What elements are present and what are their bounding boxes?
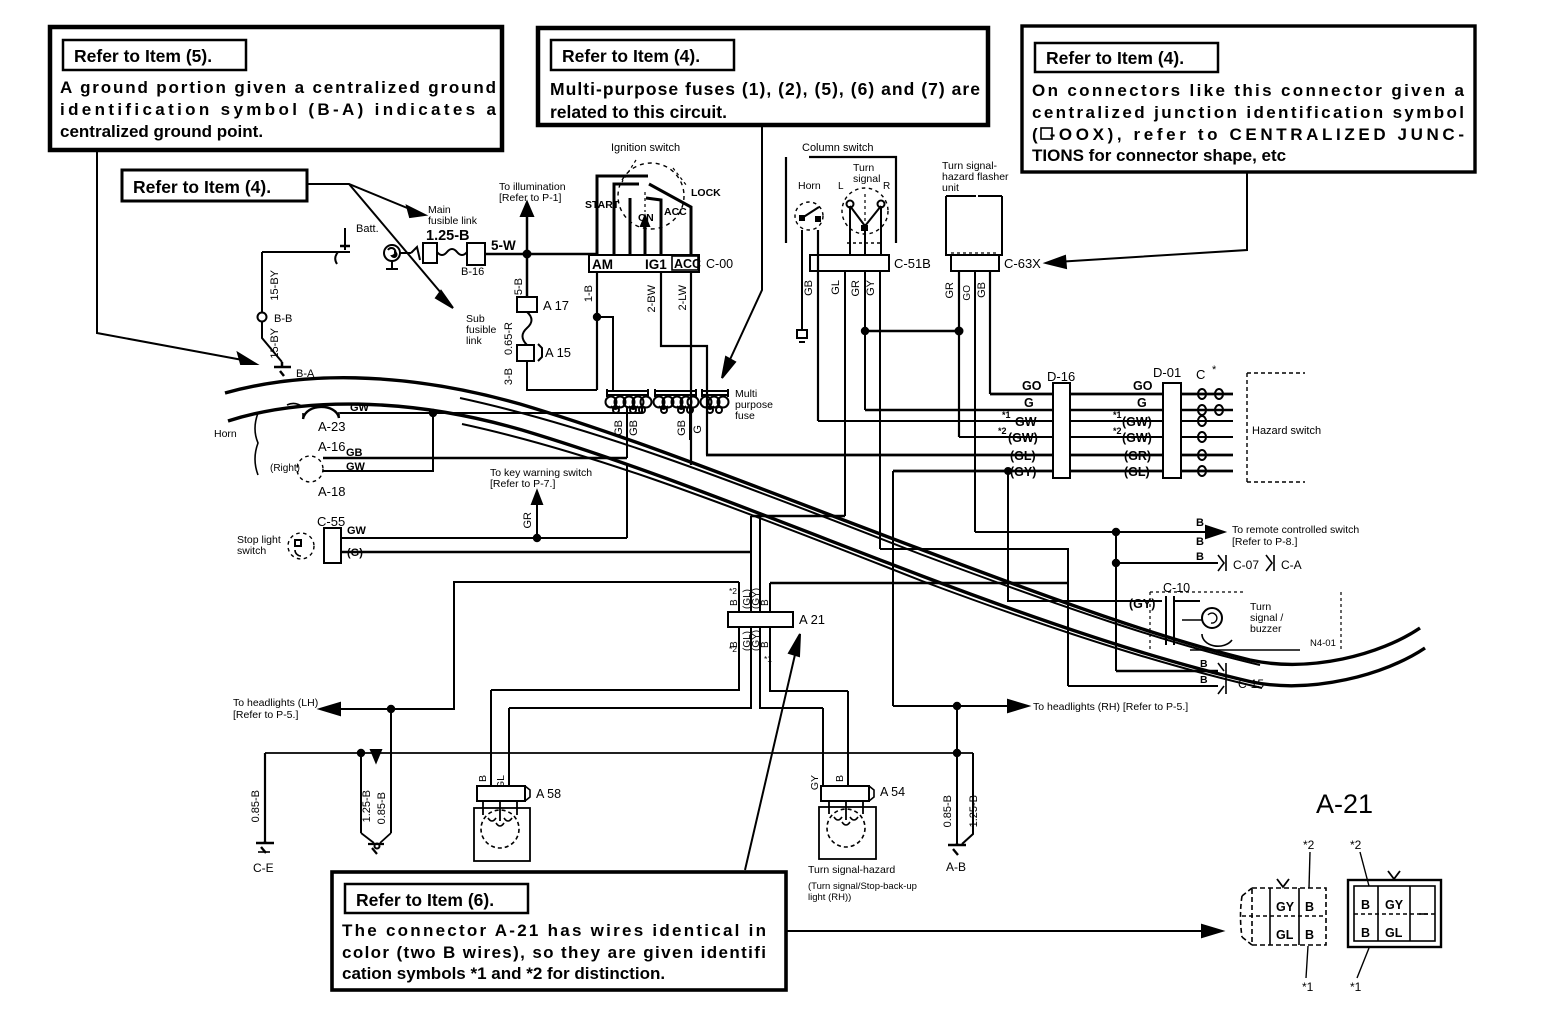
multi-purpose fuse bar 1 — [607, 389, 648, 397]
note box item5 top-left — [50, 27, 502, 150]
multi-purpose fuse bar 2 — [655, 389, 696, 397]
connector A-21 — [728, 612, 825, 627]
svg-text:A-21: A-21 — [1316, 789, 1373, 819]
svg-text:*2: *2 — [729, 586, 737, 596]
svg-text:signal: signal — [853, 173, 880, 185]
wire GL ladder y455 — [706, 454, 1233, 457]
svg-text:B: B — [1361, 898, 1370, 912]
svg-text:*2: *2 — [1303, 838, 1315, 852]
svg-text:R: R — [883, 181, 890, 192]
wire B to C-07 C-A — [1113, 532, 1302, 671]
svg-text:GY: GY — [1276, 900, 1295, 914]
ground C-E left — [250, 753, 274, 875]
svg-text:color (two B wires), so they a: color (two B wires), so they are given i… — [342, 943, 766, 962]
svg-text:B: B — [1196, 551, 1204, 563]
leader arrow from item6 box to A-21 connector — [745, 634, 800, 870]
svg-text:To remote controlled switch: To remote controlled switch — [1232, 524, 1359, 536]
svg-text:*1: *1 — [1002, 410, 1011, 420]
wire GY drop to C-10 — [1005, 468, 1162, 611]
svg-text:Hazard switch: Hazard switch — [1252, 425, 1321, 437]
svg-text:C-07: C-07 — [1233, 558, 1259, 572]
svg-text:GL: GL — [1385, 926, 1403, 940]
leader arrow from item6 box to A-21 pinout detail — [786, 925, 1222, 937]
wire 5-B down to A-17 — [513, 254, 527, 297]
wire GO ladder y394 — [990, 393, 1233, 396]
svg-text:switch: switch — [237, 545, 266, 557]
fuse stub G — [692, 425, 704, 434]
svg-text:15-BY: 15-BY — [269, 327, 281, 358]
wire G ladder y410 — [865, 409, 1233, 412]
svg-text:A 21: A 21 — [799, 612, 825, 627]
A-21 upper wires — [739, 516, 770, 612]
svg-text:*: * — [1212, 364, 1217, 376]
wire 15-BY down left — [262, 252, 281, 313]
svg-text:3-B: 3-B — [503, 368, 515, 385]
svg-text:cation symbols *1 and *2 for d: cation symbols *1 and *2 for distinction… — [342, 964, 665, 983]
wire B remote switch y532 — [975, 517, 1359, 548]
column wire GL down — [830, 270, 845, 516]
A-21 pinout right connector — [1348, 871, 1441, 947]
wire B top y583 — [770, 582, 1068, 584]
wire GW horn A-23 — [340, 410, 642, 416]
wire GY vertical to headlights RH — [892, 471, 894, 706]
svg-text:0.85-B: 0.85-B — [376, 792, 388, 824]
flasher connector C-63X — [951, 255, 1041, 271]
svg-text:0.85-B: 0.85-B — [942, 795, 954, 827]
svg-text:A 54: A 54 — [880, 785, 905, 799]
svg-text:Multi-purpose fuses (1), (2),: Multi-purpose fuses (1), (2), (5), (6) a… — [550, 79, 980, 99]
horn ground wire and terminal — [797, 230, 807, 342]
wire GL thick jog y516 — [751, 515, 845, 518]
svg-text:A-18: A-18 — [318, 484, 345, 499]
svg-text:A-23: A-23 — [318, 419, 345, 434]
node B-B — [258, 313, 293, 326]
harness curve lower — [228, 404, 1425, 686]
svg-text:C-55: C-55 — [317, 514, 345, 529]
svg-text:TIONS for connector shape, etc: TIONS for connector shape, etc — [1032, 146, 1286, 165]
wire 2-BW from IG1 — [646, 272, 707, 455]
svg-text:fusible link: fusible link — [428, 215, 478, 227]
svg-text:GW: GW — [1015, 415, 1037, 429]
ignition switch — [585, 142, 721, 229]
note box item6 bottom — [332, 872, 786, 990]
turn signal switch — [838, 162, 890, 234]
svg-text:B-B: B-B — [274, 313, 292, 325]
harness curve lower twin — [462, 424, 1262, 688]
ignition switch contact ON with arrow — [641, 192, 649, 255]
svg-text:Refer to Item (4).: Refer to Item (4). — [562, 46, 700, 66]
turn signal-hazard flasher unit — [942, 160, 1009, 255]
svg-text:(GW): (GW) — [1122, 415, 1152, 429]
ignition switch contact AM — [597, 176, 648, 255]
svg-text:buzzer: buzzer — [1250, 623, 1282, 635]
svg-text:(GL): (GL) — [1124, 465, 1150, 479]
svg-text:(Right): (Right) — [270, 463, 300, 474]
wire GY ladder y471 — [893, 470, 1233, 473]
hazard switch bracket — [1247, 373, 1321, 482]
svg-text:B: B — [1305, 900, 1314, 914]
fuse elements bar1 — [606, 397, 652, 414]
A-21 lower labels — [729, 630, 772, 664]
main fusible link label — [426, 204, 478, 244]
svg-text:AM: AM — [592, 257, 613, 272]
svg-text:GL: GL — [830, 280, 842, 295]
ground pair 1.25-B 0.85-B — [361, 709, 391, 854]
svg-text:C-10: C-10 — [1163, 581, 1190, 595]
svg-text:1.25-B: 1.25-B — [968, 795, 980, 827]
note box item4 top-right — [1022, 26, 1475, 172]
svg-text:GW: GW — [347, 525, 367, 537]
wire 15-BY lower — [262, 321, 282, 362]
svg-text:N4-01: N4-01 — [1310, 638, 1336, 649]
svg-text:(GR): (GR) — [1124, 449, 1151, 463]
svg-text:centralized ground point.: centralized ground point. — [60, 122, 263, 141]
svg-text:B: B — [729, 641, 740, 648]
svg-text:1.25-B: 1.25-B — [361, 790, 373, 822]
horn switch — [795, 180, 823, 230]
flasher wire GR — [944, 271, 959, 437]
svg-text:ACC: ACC — [664, 206, 687, 218]
wire key warning arrow — [490, 467, 592, 538]
svg-text:G: G — [1137, 396, 1147, 410]
connector A-17 — [517, 297, 569, 313]
ladder labels left of D-16 — [998, 379, 1042, 479]
svg-text:B: B — [1200, 674, 1208, 686]
A-21 pinout left connector — [1241, 879, 1327, 945]
note box item4 small left — [122, 170, 307, 201]
svg-text:identification symbol (B-A) in: identification symbol (B-A) indicates a — [60, 100, 497, 119]
svg-text:GB: GB — [628, 420, 640, 436]
svg-text:A 17: A 17 — [543, 298, 569, 313]
ignition switch contact 3 — [629, 198, 632, 255]
svg-text:GL: GL — [1276, 928, 1294, 942]
svg-text:GB: GB — [676, 420, 688, 436]
svg-text:centralized junction identific: centralized junction identification symb… — [1032, 103, 1464, 122]
leader arrows from item4 small box to fusible links — [307, 184, 453, 308]
svg-text:C-15: C-15 — [1238, 677, 1264, 691]
turn signal hazard lamp RH — [808, 801, 917, 903]
svg-text:B: B — [1200, 658, 1208, 670]
A-21 pinout left leaders — [1302, 838, 1315, 994]
svg-text:5-W: 5-W — [491, 238, 516, 253]
svg-text:Column switch: Column switch — [802, 142, 874, 154]
svg-text:IG1: IG1 — [645, 257, 667, 272]
svg-text:LOCK: LOCK — [691, 187, 721, 199]
svg-text:*2: *2 — [1113, 426, 1122, 436]
svg-text:B: B — [1196, 536, 1204, 548]
ignition switch connector C-00 — [589, 255, 733, 272]
svg-text:C-00: C-00 — [706, 257, 733, 271]
horn right circle — [270, 439, 366, 499]
A-21 pinout right leaders — [1350, 838, 1369, 994]
connector C-10 — [1163, 581, 1200, 645]
svg-text:*2: *2 — [1350, 838, 1362, 852]
wire G stop light thick — [341, 551, 751, 554]
svg-text:B: B — [1305, 928, 1314, 942]
A-21 lower wires — [491, 627, 848, 708]
svg-text:B: B — [729, 599, 740, 606]
svg-text:ACC: ACC — [674, 257, 701, 271]
svg-text:[Refer to P-1]: [Refer to P-1] — [499, 192, 562, 204]
connector A-15 — [517, 344, 571, 361]
battery — [335, 223, 378, 264]
wire to headlights RH — [893, 700, 1188, 713]
svg-text:Horn: Horn — [798, 180, 821, 192]
leader arrow from top-right box to C-63X — [1046, 172, 1247, 268]
svg-text:*1: *1 — [764, 654, 772, 664]
svg-text:GB: GB — [976, 282, 988, 298]
svg-text:G: G — [1024, 396, 1034, 410]
svg-text:B-16: B-16 — [461, 266, 484, 278]
column switch — [786, 142, 896, 243]
connector bar D-01 — [1153, 365, 1181, 478]
svg-text:(GW): (GW) — [1122, 431, 1152, 445]
wire 3-B down and right — [503, 361, 597, 390]
svg-text:Refer to Item (6).: Refer to Item (6). — [356, 890, 494, 910]
horn bracket — [214, 413, 258, 475]
harness curve upper twin — [460, 398, 1260, 665]
svg-text:(GL): (GL) — [1010, 449, 1036, 463]
wire 2-LW from ACC — [677, 272, 691, 465]
svg-text:Turn signal-hazard: Turn signal-hazard — [808, 864, 895, 876]
svg-text:A-16: A-16 — [318, 439, 345, 454]
connector bar D-16 — [1047, 369, 1075, 478]
wire B pair to C-15 — [1068, 658, 1264, 694]
svg-text:B: B — [477, 775, 489, 782]
wire GW ladder y421 — [818, 420, 1233, 422]
A-21 upper labels — [729, 586, 771, 609]
turn signal buzzer — [1150, 592, 1341, 650]
fuse stub GB 1 — [613, 406, 627, 458]
svg-text:Refer to Item (4).: Refer to Item (4). — [1046, 48, 1184, 68]
arrow to headlights LH — [233, 697, 394, 721]
wire 1-B from AM — [583, 272, 600, 390]
wire GY right y549 — [880, 549, 1068, 686]
wire GB horn A-16 — [323, 457, 627, 459]
svg-text:B: B — [760, 641, 771, 648]
junction dot — [524, 251, 531, 258]
svg-text:2-LW: 2-LW — [677, 284, 689, 310]
svg-text:GB: GB — [613, 420, 625, 436]
svg-text:A-B: A-B — [946, 860, 966, 874]
svg-text:On connectors like this connec: On connectors like this connector given … — [1032, 81, 1465, 100]
ignition switch contact ACC diagonal — [649, 184, 691, 255]
svg-text:related to this circuit.: related to this circuit. — [550, 102, 727, 122]
svg-text:A 15: A 15 — [545, 345, 571, 360]
svg-text:Horn: Horn — [214, 428, 237, 440]
fusible link element 1 — [423, 243, 467, 263]
svg-text:5-B: 5-B — [513, 278, 525, 295]
long ground bus y753 — [265, 750, 973, 762]
fuse stub GW — [628, 406, 642, 436]
note box item4 middle — [538, 28, 988, 125]
svg-text:GR: GR — [522, 512, 534, 529]
svg-text:[Refer to P-8.]: [Refer to P-8.] — [1232, 536, 1297, 548]
multi-purpose fuse bar 3 — [702, 389, 728, 397]
svg-text:To headlights (RH) [Refer to P: To headlights (RH) [Refer to P-5.] — [1033, 701, 1188, 713]
svg-text:C-A: C-A — [1281, 558, 1302, 572]
wire GR joins column GR junction — [850, 270, 963, 410]
svg-text:link: link — [466, 335, 483, 347]
wire battery to fusible link — [262, 247, 420, 260]
svg-text:Batt.: Batt. — [356, 223, 379, 235]
horn left A-23 — [287, 402, 370, 434]
fusible link element 2 B-16 — [461, 243, 485, 278]
wire 5-W — [485, 238, 597, 254]
stop light connector C-55 — [317, 514, 367, 563]
column wire GY down — [865, 270, 880, 549]
leader arrow from item5 box to ground B-A — [97, 150, 256, 364]
svg-text:(GW): (GW) — [1008, 431, 1038, 445]
ladder labels left of D-01 — [1113, 379, 1153, 479]
svg-text:*1: *1 — [1113, 410, 1122, 420]
svg-text:0.65-R: 0.65-R — [503, 322, 515, 355]
ground A-B right — [942, 706, 980, 874]
leader arrow from middle item4 box to fuse block — [722, 125, 762, 378]
column switch connector C-51B — [810, 255, 931, 271]
horn wire GB — [803, 230, 818, 421]
svg-text:*1: *1 — [1350, 980, 1362, 994]
svg-text:fuse: fuse — [735, 410, 755, 422]
svg-text:A ground portion given a centr: A ground portion given a centralized gro… — [60, 78, 496, 97]
svg-text:GO: GO — [1133, 379, 1153, 393]
svg-text:Refer to Item (5).: Refer to Item (5). — [74, 46, 212, 66]
harness curve upper — [225, 378, 1420, 665]
svg-text:C: C — [1196, 367, 1205, 382]
wire B left big loop — [334, 582, 739, 709]
svg-text:GR: GR — [944, 282, 956, 299]
svg-text:GY: GY — [1385, 898, 1404, 912]
svg-text:C-63X: C-63X — [1004, 256, 1041, 271]
svg-text:Refer to Item (4).: Refer to Item (4). — [133, 177, 271, 197]
svg-text:GO: GO — [1022, 379, 1042, 393]
svg-text:1.25-B: 1.25-B — [426, 228, 470, 244]
svg-text:C-E: C-E — [253, 861, 274, 875]
svg-text:light (RH)): light (RH)) — [808, 892, 851, 903]
svg-text:[Refer to P-7.]: [Refer to P-7.] — [490, 478, 555, 490]
svg-text:L: L — [838, 181, 844, 192]
flasher wire GO — [976, 271, 990, 394]
svg-text:2-BW: 2-BW — [646, 284, 658, 312]
svg-text:D-16: D-16 — [1047, 369, 1075, 384]
stop light switch — [237, 533, 314, 559]
wire GW horn A-18 — [323, 413, 433, 471]
svg-text:GY: GY — [865, 279, 877, 296]
ignition switch contact 2 — [614, 184, 639, 255]
wire GW stop light — [341, 535, 627, 541]
ignition switch contact IG1 — [646, 198, 661, 255]
svg-text:[Refer to P-5.]: [Refer to P-5.] — [233, 709, 298, 721]
svg-text:A 58: A 58 — [536, 787, 561, 801]
svg-text:B: B — [1196, 517, 1204, 529]
svg-text:(GY): (GY) — [1010, 465, 1036, 479]
svg-text:(GY): (GY) — [1129, 597, 1155, 611]
svg-text:To headlights (LH): To headlights (LH) — [233, 697, 318, 709]
svg-text:GO: GO — [962, 285, 973, 301]
fuse elements bar3 — [701, 397, 729, 414]
rear lamp RH connector A-54 — [809, 691, 905, 801]
svg-text:B: B — [834, 775, 846, 782]
svg-text:Ignition switch: Ignition switch — [611, 142, 680, 154]
svg-text:C-51B: C-51B — [894, 256, 931, 271]
multi purpose fuse label — [735, 388, 773, 422]
svg-text:0.85-B: 0.85-B — [250, 790, 262, 822]
svg-text:GR: GR — [850, 280, 862, 297]
front turn signal lamp LH connector A-58 — [477, 690, 561, 801]
svg-text:B: B — [760, 599, 771, 606]
ignition coil symbol — [384, 245, 400, 269]
wire GW2 ladder y437 — [959, 436, 1233, 438]
svg-text:*1: *1 — [1302, 980, 1314, 994]
svg-text:15-BY: 15-BY — [269, 269, 281, 300]
fuse stub GB 2 — [676, 406, 690, 440]
wire GW rise at 627 — [626, 464, 628, 538]
front turn signal lamp LH — [474, 801, 530, 861]
fuse elements bar2 — [654, 397, 699, 414]
svg-text:GB: GB — [803, 280, 815, 296]
svg-text:G: G — [692, 425, 704, 434]
svg-text:*2: *2 — [998, 426, 1007, 436]
svg-text:( -OOX), refer to CENTRALIZED: ( -OOX), refer to CENTRALIZED JUNC- — [1032, 125, 1464, 144]
ground B-A — [274, 362, 315, 380]
svg-text:B: B — [1361, 926, 1370, 940]
connector C-4 pins — [1196, 364, 1232, 476]
svg-text:1-B: 1-B — [583, 285, 595, 302]
svg-text:GY: GY — [809, 775, 821, 790]
flasher wire B — [962, 271, 975, 532]
turn signal wires through connector — [849, 206, 851, 255]
svg-text:unit: unit — [942, 182, 959, 194]
arrow up to illumination — [499, 181, 566, 254]
svg-text:D-01: D-01 — [1153, 365, 1181, 380]
sub fusible link squiggle — [466, 312, 532, 355]
svg-text:(Turn signal/Stop-back-up: (Turn signal/Stop-back-up — [808, 881, 917, 892]
wire branch to fuse bar1 — [597, 317, 613, 391]
